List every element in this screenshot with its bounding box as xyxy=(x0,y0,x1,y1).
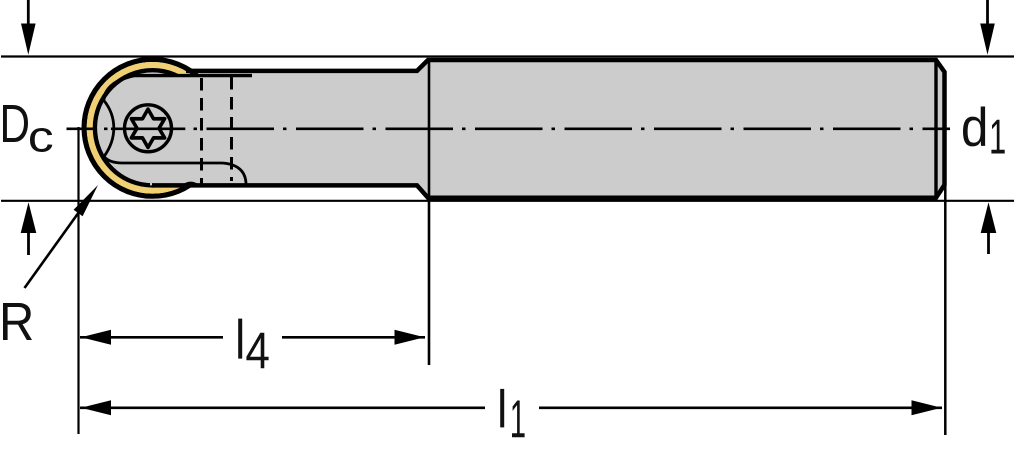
centerline solid through screw xyxy=(111,127,185,130)
label d1 - d xyxy=(963,107,985,147)
label l1 - l xyxy=(500,389,504,428)
hidden edge dashed line 1 xyxy=(200,78,203,187)
label l1 - 1 subscript xyxy=(512,401,525,438)
shank end face line xyxy=(934,62,937,197)
arrow bottom-right (d1) xyxy=(987,232,990,254)
torx screw star xyxy=(131,109,164,147)
extension line bottom (Dc/d1 lower) xyxy=(1,200,1014,202)
extension line right vertical (tool end) xyxy=(944,186,947,435)
extension line l4 vertical (over body) xyxy=(428,61,431,366)
arrow top-right (d1) xyxy=(986,0,989,24)
arrow top-left (Dc) xyxy=(27,0,30,24)
ball head gold insert ring xyxy=(90,65,216,191)
extension line top (Dc/d1 upper) xyxy=(1,55,1014,57)
label Dc - c subscript xyxy=(30,128,52,152)
label R xyxy=(3,303,32,340)
dimension line l1 xyxy=(80,406,485,409)
label d1 - 1 subscript xyxy=(991,120,1004,154)
insert top edge xyxy=(104,76,253,100)
ball head core xyxy=(97,72,208,183)
ball head outer ring xyxy=(84,59,221,196)
ball-neck tangent bump xyxy=(184,182,198,184)
ball head inner ring xyxy=(95,70,210,185)
label Dc - D xyxy=(3,105,28,142)
arrow bottom-left (Dc) xyxy=(27,232,30,255)
dimension line l4 xyxy=(80,336,223,339)
extension line left vertical (tool tip) xyxy=(77,127,79,434)
insert lower contour xyxy=(104,100,247,185)
tool body outline xyxy=(152,60,945,198)
label l4 - l xyxy=(238,319,242,359)
centerline dash-dot right xyxy=(186,127,951,130)
centerline dash-dot left xyxy=(67,127,112,130)
label l4 - 4 subscript xyxy=(246,333,268,369)
tool body fill (neck + shank) xyxy=(150,60,945,198)
hidden edge dashed line 2 xyxy=(230,77,233,181)
torx screw outer circle xyxy=(125,105,172,152)
R leader arrow xyxy=(25,212,80,288)
